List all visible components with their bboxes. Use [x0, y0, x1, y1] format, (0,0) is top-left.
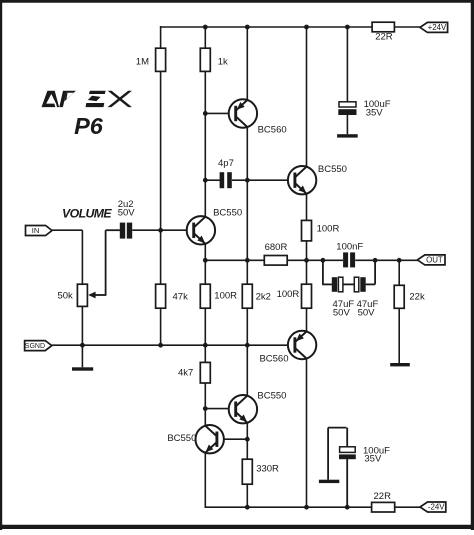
capacitor 4p7 — [218, 158, 234, 188]
transistor Q3 BC550 — [187, 208, 242, 245]
svg-text:1M: 1M — [136, 56, 149, 67]
svg-text:100nF: 100nF — [336, 242, 363, 253]
wire output rail mid — [287, 259, 343, 261]
wire output rail right — [355, 259, 417, 261]
wire Q5 emitter to 330R — [246, 423, 248, 460]
pot wiper arrow — [88, 292, 95, 299]
wire Q1 emitter to +24V rail — [246, 26, 248, 100]
svg-text:22k: 22k — [409, 291, 425, 302]
wire down to pot top — [81, 230, 83, 284]
wire 1k to Q3 collector — [204, 71, 206, 217]
wire 1M to input node — [160, 71, 162, 284]
transistor Q4 BC560 — [259, 331, 316, 365]
wire Q2 emitter to 100R — [306, 194, 308, 221]
resistor 100R (Q4 emitter) — [302, 284, 312, 308]
wire 100uF negative-rail branch — [346, 459, 348, 508]
svg-text:1k: 1k — [218, 56, 228, 67]
svg-text:22R: 22R — [375, 31, 393, 42]
wire 100uF to ground — [346, 115, 348, 134]
svg-text:SGND: SGND — [25, 343, 45, 350]
wire 100R to SGND — [204, 308, 206, 362]
resistor 680R — [264, 256, 287, 266]
capacitor 47uF 50V (left) — [332, 277, 355, 318]
resistor 1k — [200, 48, 210, 71]
svg-text:4p7: 4p7 — [218, 158, 234, 169]
capacitor 2u2 50V — [118, 199, 136, 239]
svg-text:50V: 50V — [358, 308, 376, 319]
wire 2u2 to Q3 base — [132, 229, 194, 231]
resistor 330R — [242, 459, 252, 484]
port SGND — [25, 341, 52, 351]
svg-text:2k2: 2k2 — [256, 291, 271, 302]
svg-text:BC560: BC560 — [259, 353, 288, 364]
wire 2k2 to SGND — [246, 308, 248, 396]
wire out rail to 22k — [398, 260, 400, 285]
ground (100uF +24V) — [337, 134, 358, 137]
wire SGND rail — [52, 344, 296, 346]
resistor 4k7 — [200, 362, 210, 383]
wire 100uF branch from +24V rail — [346, 27, 348, 102]
wire output rail left — [205, 259, 264, 261]
wire Q1 base — [205, 112, 236, 114]
wire Q6 emitter to -24V rail — [204, 453, 206, 508]
wire 47k to SGND — [160, 308, 162, 345]
resistor 100R (feedback shunt) — [200, 284, 210, 308]
wire 47uF bypass loop — [322, 260, 324, 284]
resistor 1M — [156, 48, 166, 71]
wire Q3 emitter to out rail — [204, 244, 206, 285]
svg-text:BC550: BC550 — [213, 208, 242, 219]
wire Q2 collector to +24V rail — [306, 26, 308, 167]
capacitor 47uF 50V (right) — [354, 277, 378, 318]
transistor Q2 BC550 — [288, 164, 347, 194]
svg-text:35V: 35V — [364, 454, 382, 465]
capacitor 100nF — [336, 242, 363, 268]
ground (100uF -24V) — [319, 480, 339, 483]
transistor Q6 BC550 — [167, 425, 224, 453]
wire pot to ground — [81, 306, 83, 367]
wire 100R to out rail — [306, 241, 308, 284]
wire 22k to ground — [398, 308, 400, 363]
wire node to 4p7 — [205, 179, 220, 181]
svg-text:BC550: BC550 — [257, 391, 286, 402]
wire 22R to -24V tag — [395, 506, 421, 508]
wire +24V rail — [161, 26, 373, 28]
resistor 100R (Q2 emitter) — [302, 220, 312, 241]
resistor 22R (-24V) — [372, 502, 395, 512]
potentiometer 50k — [77, 284, 87, 306]
port OUT — [417, 255, 445, 265]
transistor Q5 BC550 — [229, 391, 287, 424]
wire -24V rail — [205, 506, 371, 508]
svg-text:4k7: 4k7 — [178, 367, 193, 378]
wire 4k7 to Q6 collector — [204, 383, 206, 426]
capacitor 100uF 35V (-24V) — [339, 446, 390, 465]
port -24V — [420, 502, 446, 512]
resistor 2k2 — [242, 284, 252, 308]
svg-text:VOLUME: VOLUME — [62, 206, 112, 220]
svg-text:BC550: BC550 — [318, 164, 347, 175]
svg-text:50V: 50V — [118, 208, 136, 219]
port +24V — [420, 22, 448, 32]
svg-text:680R: 680R — [265, 242, 288, 253]
resistor 22k — [394, 285, 404, 308]
svg-text:P6: P6 — [74, 113, 104, 139]
svg-text:100R: 100R — [317, 224, 340, 235]
svg-text:IN: IN — [32, 226, 40, 235]
ground (22k) — [390, 363, 410, 366]
ground (volume pot) — [72, 367, 93, 370]
wire Q1 collector to 2k2 — [246, 127, 248, 284]
svg-text:22R: 22R — [374, 491, 392, 502]
svg-text:BC560: BC560 — [258, 125, 287, 136]
wire pot wiper — [94, 294, 105, 296]
capacitor 100uF 35V (+24V) — [338, 99, 390, 119]
svg-text:50V: 50V — [333, 308, 351, 319]
resistor 22R (+24V) — [372, 22, 394, 32]
port IN — [26, 226, 53, 236]
wire Q6 base — [216, 438, 247, 440]
wire 4p7 to Q2 base — [232, 179, 295, 181]
svg-text:330R: 330R — [256, 464, 279, 475]
wire 100R to Q4 emitter — [306, 308, 308, 331]
svg-text:100R: 100R — [214, 290, 237, 301]
svg-text:50k: 50k — [57, 290, 73, 301]
wire Q4 collector to -24V rail — [306, 359, 308, 509]
wire 22R to +24V tag — [394, 26, 420, 28]
resistor 47k — [156, 284, 166, 308]
wire IN to pot — [52, 229, 82, 231]
svg-text:+24V: +24V — [428, 23, 447, 32]
wire 1M top — [160, 26, 162, 48]
wire Q5 base — [205, 408, 236, 410]
APEX logo — [42, 91, 133, 107]
svg-text:100R: 100R — [277, 289, 300, 300]
wire 330R to -24V rail — [246, 484, 248, 508]
transistor Q1 BC560 — [229, 99, 287, 135]
svg-text:BC550: BC550 — [167, 433, 196, 444]
svg-text:OUT: OUT — [426, 255, 443, 264]
svg-text:35V: 35V — [366, 108, 384, 119]
wire 1k top — [204, 26, 206, 48]
svg-text:-24V: -24V — [428, 502, 445, 511]
svg-text:47k: 47k — [173, 291, 189, 302]
